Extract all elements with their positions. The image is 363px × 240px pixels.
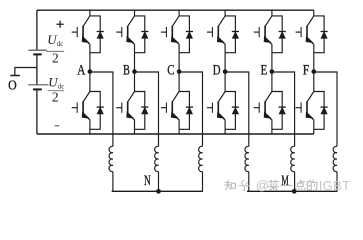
transistor Q12 (IGBT) xyxy=(296,92,314,130)
wire leg C: lower cell to DC- rail xyxy=(178,129,180,134)
transistor Q1 (IGBT) xyxy=(72,16,90,53)
diode D4 (freewheeling) xyxy=(225,16,239,53)
node M (junction dot) xyxy=(292,189,297,194)
wire leg F: DC+ rail stub xyxy=(313,10,315,16)
transistor Q4 (IGBT) xyxy=(207,16,225,53)
wire leg A: DC+ rail stub xyxy=(89,10,91,16)
polarity mark - xyxy=(55,125,60,127)
diode D7 (freewheeling) xyxy=(90,92,104,130)
svg-text:@: @ xyxy=(256,178,269,193)
wire inductor L1 to star bus xyxy=(112,172,114,192)
terminal O bar xyxy=(10,75,19,77)
inductor L2 (phase winding) xyxy=(155,146,159,171)
diode D1 (freewheeling) xyxy=(90,16,104,53)
svg-text:B: B xyxy=(123,63,130,79)
svg-text:IGBT: IGBT xyxy=(319,178,351,193)
wire DC+ rail xyxy=(37,9,314,11)
wire node F to inductor L6 xyxy=(314,72,337,146)
transistor Q2 (IGBT) xyxy=(116,16,134,53)
wire leg B: upper cell to lower cell through node B xyxy=(134,53,136,92)
wire node A to inductor L1 xyxy=(90,72,113,146)
wire leg D: DC+ rail stub xyxy=(224,10,226,16)
wire leg F: lower cell to DC- rail xyxy=(313,129,315,134)
wire leg B: lower cell to DC- rail xyxy=(134,129,136,134)
diode D11 (freewheeling) xyxy=(272,92,286,130)
wire inductor L5 to star bus xyxy=(294,172,296,192)
wire star bus M (windings 4-6) xyxy=(247,190,337,192)
transistor Q11 (IGBT) xyxy=(254,92,272,130)
wire leg E: upper cell to lower cell through node E xyxy=(271,53,273,92)
wire star bus N (windings 1-3) xyxy=(112,190,203,192)
diode D5 (freewheeling) xyxy=(272,16,286,53)
wire midpoint tap to terminal O xyxy=(15,68,37,76)
wire leg E: lower cell to DC- rail xyxy=(271,129,273,134)
diode D9 (freewheeling) xyxy=(179,92,193,130)
node C (junction dot) xyxy=(177,69,182,74)
diode D12 (freewheeling) xyxy=(314,92,328,130)
svg-text:M: M xyxy=(281,173,289,189)
svg-text:dc: dc xyxy=(57,41,63,48)
wire leg A: upper cell to lower cell through node A xyxy=(89,53,91,92)
polarity mark + xyxy=(57,21,64,28)
svg-text:F: F xyxy=(303,63,310,79)
inductor L3 (phase winding) xyxy=(199,146,203,171)
wire inductor L6 to star bus xyxy=(336,172,338,192)
wire inductor L2 to star bus xyxy=(158,172,160,192)
wire leg A: lower cell to DC- rail xyxy=(89,129,91,134)
diode D6 (freewheeling) xyxy=(314,16,328,53)
diode D3 (freewheeling) xyxy=(179,16,193,53)
svg-text:dc: dc xyxy=(58,84,64,91)
wire leg C: upper cell to lower cell through node C xyxy=(178,53,180,92)
label Udc/2 (lower) xyxy=(48,74,65,104)
battery E2 (lower Udc/2 source) xyxy=(28,85,48,90)
wire leg D: upper cell to lower cell through node D xyxy=(224,53,226,92)
wire leg F: upper cell to lower cell through node F xyxy=(313,53,315,92)
inductor L6 (phase winding) xyxy=(333,146,337,171)
transistor Q9 (IGBT) xyxy=(161,92,179,130)
svg-text:2: 2 xyxy=(52,90,59,105)
diode D8 (freewheeling) xyxy=(135,92,149,130)
wire node E to inductor L5 xyxy=(272,72,295,146)
wire leg C: DC+ rail stub xyxy=(178,10,180,16)
wire leg D: lower cell to DC- rail xyxy=(224,129,226,134)
node B (junction dot) xyxy=(132,69,137,74)
svg-text:2: 2 xyxy=(52,51,59,66)
transistor Q6 (IGBT) xyxy=(296,16,314,53)
svg-text:D: D xyxy=(213,63,221,79)
inductor L4 (phase winding) xyxy=(245,146,249,171)
wire inductor L4 to star bus xyxy=(248,172,250,192)
node A (junction dot) xyxy=(88,69,93,74)
wire node B to inductor L2 xyxy=(135,72,159,146)
inductor L5 (phase winding) xyxy=(291,146,295,171)
wire leg E: DC+ rail stub xyxy=(271,10,273,16)
diode D10 (freewheeling) xyxy=(225,92,239,130)
svg-text:E: E xyxy=(261,63,268,79)
inductor L1 (phase winding) xyxy=(109,146,113,171)
svg-text:C: C xyxy=(167,63,174,79)
svg-text:A: A xyxy=(77,63,86,79)
transistor Q10 (IGBT) xyxy=(207,92,225,130)
wire DC source column xyxy=(36,10,38,134)
wire node C to inductor L3 xyxy=(179,72,202,146)
watermark "知乎 @菜一点的IGBT" (gray) xyxy=(225,178,350,193)
wire DC- rail xyxy=(37,133,314,135)
transistor Q3 (IGBT) xyxy=(161,16,179,53)
node F (junction dot) xyxy=(311,69,316,74)
node E (junction dot) xyxy=(270,69,275,74)
battery E1 (upper Udc/2 source) xyxy=(28,50,47,54)
transistor Q8 (IGBT) xyxy=(116,92,134,130)
diode D2 (freewheeling) xyxy=(135,16,149,53)
label Udc/2 (upper) xyxy=(47,32,65,66)
wire node D to inductor L4 xyxy=(225,72,249,146)
node N (junction dot) xyxy=(156,189,161,194)
wire inductor L3 to star bus xyxy=(202,172,204,192)
transistor Q5 (IGBT) xyxy=(254,16,272,53)
node D (junction dot) xyxy=(223,69,228,74)
wire leg B: DC+ rail stub xyxy=(134,10,136,16)
svg-text:O: O xyxy=(8,79,17,94)
transistor Q7 (IGBT) xyxy=(72,92,90,130)
svg-text:N: N xyxy=(144,173,151,189)
